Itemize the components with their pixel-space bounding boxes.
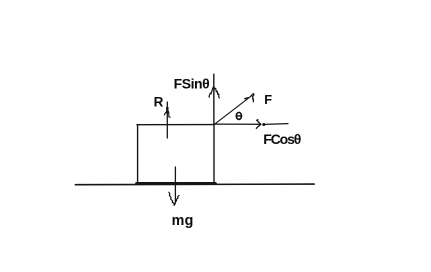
force line FCos theta (after dot) <box>265 123 288 126</box>
ground surface line <box>75 183 314 186</box>
arrowhead of FCos theta <box>256 120 261 129</box>
block left edge <box>137 125 139 184</box>
arrowhead of R <box>166 107 169 113</box>
force line FCos theta (horizontal, before arrowhead) <box>214 123 259 125</box>
arrowhead of FSin theta <box>209 86 219 98</box>
block right edge <box>213 125 215 185</box>
svg-text:mg: mg <box>172 213 194 229</box>
svg-text:F: F <box>264 92 272 107</box>
force line R (normal reaction) <box>166 102 168 138</box>
label theta (angle) <box>236 112 242 119</box>
arrowhead of F (hook) <box>245 97 248 100</box>
svg-text:FCosθ: FCosθ <box>263 131 301 147</box>
arrowhead of mg <box>169 192 174 205</box>
block top edge <box>137 124 214 126</box>
svg-text:R: R <box>154 94 164 109</box>
svg-text:FSinθ: FSinθ <box>174 76 210 92</box>
dot after arrowhead <box>262 123 265 126</box>
force line FSin theta (vertical from corner) <box>213 74 215 124</box>
block bottom edge (thick) <box>137 182 216 185</box>
force line mg (weight) <box>174 167 176 201</box>
force line F (diagonal) <box>215 96 252 125</box>
